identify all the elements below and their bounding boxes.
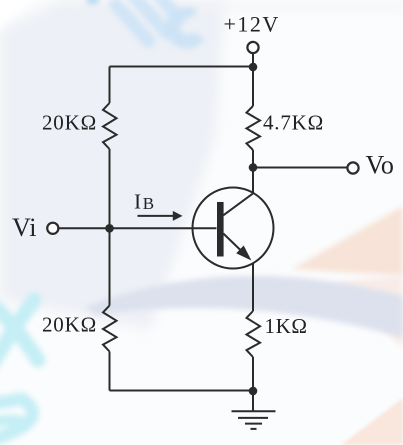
- svg-text:Vi: Vi: [12, 213, 36, 242]
- svg-text:4.7KΩ: 4.7KΩ: [263, 111, 324, 135]
- svg-text:B: B: [143, 194, 154, 213]
- svg-text:+12V: +12V: [224, 12, 280, 37]
- svg-text:I: I: [134, 190, 141, 214]
- svg-text:20KΩ: 20KΩ: [42, 313, 97, 337]
- svg-text:1KΩ: 1KΩ: [265, 314, 308, 338]
- svg-text:Vo: Vo: [366, 151, 394, 180]
- svg-text:20KΩ: 20KΩ: [42, 111, 97, 135]
